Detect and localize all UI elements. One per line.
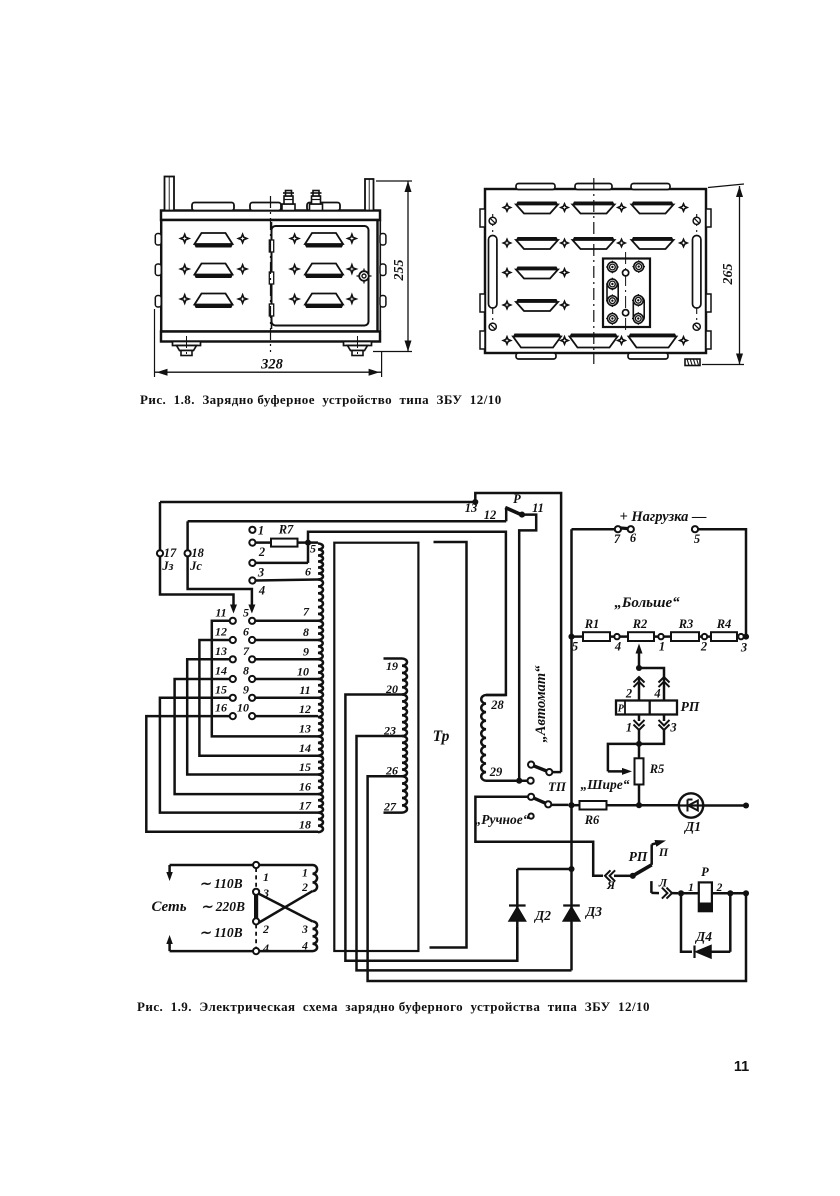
svg-text:1: 1 (258, 524, 264, 538)
svg-text:28: 28 (490, 698, 504, 712)
svg-text:255: 255 (392, 260, 407, 282)
svg-text:„Автомат“: „Автомат“ (533, 665, 549, 743)
svg-text:8: 8 (243, 664, 249, 678)
figure 1.8: terminal bolts on top (282, 191, 323, 211)
svg-text:R3: R3 (678, 617, 694, 631)
diode Д4 (681, 893, 730, 958)
svg-text:10: 10 (237, 701, 249, 715)
wire winding 29 to switch (486, 778, 534, 784)
switch ТП automatic contact (528, 762, 561, 776)
transformer Тр secondary winding taps 19-27 (384, 659, 408, 813)
svg-text:2: 2 (301, 882, 308, 894)
svg-text:5: 5 (243, 605, 249, 619)
svg-text:14: 14 (215, 664, 227, 678)
svg-text:2: 2 (625, 687, 632, 701)
svg-text:5: 5 (694, 532, 700, 546)
svg-text:Д3: Д3 (584, 904, 602, 919)
svg-text:12: 12 (484, 508, 497, 522)
mains input Сеть arrows (151, 865, 253, 951)
svg-text:13: 13 (215, 644, 227, 658)
resistor R4 (711, 617, 738, 641)
svg-text:Р: Р (513, 492, 521, 506)
R2 wiper arrow to relay РП (636, 644, 665, 678)
left load rail (570, 529, 573, 970)
svg-text:11: 11 (532, 501, 544, 515)
terminal 4 between R1 R2 (614, 634, 628, 654)
wire tap 23 to diode Д3 (bottom link) (357, 736, 572, 970)
terminal 18 Jс (185, 546, 205, 573)
svg-text:ТП: ТП (548, 779, 567, 794)
svg-text:R6: R6 (584, 813, 600, 827)
transformer core (tall rectangle) (334, 543, 418, 951)
svg-text:11: 11 (299, 683, 310, 697)
svg-text:12: 12 (299, 702, 311, 716)
switch ТП manual contact (528, 794, 568, 808)
svg-text:4: 4 (301, 941, 308, 953)
figure 1.8: centerline (270, 196, 272, 352)
svg-text:R7: R7 (278, 523, 294, 537)
diode Д1 (stabilitron in circle) (639, 793, 749, 834)
svg-text:1: 1 (263, 870, 269, 884)
resistor R3 (671, 617, 702, 641)
svg-text:17: 17 (164, 546, 177, 560)
svg-text:∼ 220В: ∼ 220В (201, 899, 245, 914)
figure 1.8: feet (173, 336, 372, 358)
terminal 2 (249, 540, 265, 560)
resistor R1 (568, 617, 614, 654)
svg-text:1: 1 (626, 721, 632, 735)
load terminals +Нагрузка− (572, 509, 747, 637)
svg-text:4: 4 (653, 687, 660, 701)
svg-text:Јс: Јс (189, 559, 202, 573)
contact РП with positions П and Л (605, 840, 678, 899)
svg-text:3: 3 (669, 721, 676, 735)
wire from terminal 17 to tap selector arrow 11 (160, 556, 237, 613)
svg-text:7: 7 (243, 644, 250, 658)
svg-text:18: 18 (191, 546, 204, 560)
svg-text:РП: РП (629, 849, 648, 864)
svg-text:3: 3 (301, 924, 308, 936)
switch Р (contacts 13-12-11) (465, 492, 561, 781)
svg-text:Д4: Д4 (694, 929, 712, 944)
svg-text:11: 11 (734, 1059, 749, 1075)
svg-text:2: 2 (262, 922, 269, 936)
svg-text:1: 1 (302, 868, 308, 880)
svg-text:„Шире“: „Шире“ (581, 777, 630, 792)
svg-text:R4: R4 (716, 617, 732, 631)
wire net 13 (top long wire to switch P) (160, 502, 475, 550)
svg-text:23: 23 (383, 724, 396, 738)
svg-text:6: 6 (630, 531, 637, 545)
wire from terminal 18 to tap selector arrow 5 (188, 556, 256, 613)
terminal 3 (249, 560, 308, 580)
winding tap number labels 5-18 (297, 542, 316, 832)
terminal 1 (249, 524, 264, 538)
svg-text:16: 16 (299, 780, 311, 794)
svg-text:18: 18 (299, 818, 311, 832)
winding tap labels 19-27 (383, 659, 398, 814)
svg-text:27: 27 (383, 800, 397, 814)
svg-text:9: 9 (303, 645, 309, 659)
wire net 12 (second long wire to switch P blade) (188, 521, 507, 550)
svg-text:Д2: Д2 (533, 908, 551, 923)
svg-text:16: 16 (215, 701, 227, 715)
svg-text:6: 6 (243, 625, 249, 639)
figure 1.8 front view: enclosure body (155, 177, 386, 342)
terminal 17 Jз (157, 546, 177, 573)
svg-text:13: 13 (465, 501, 478, 515)
svg-text:4: 4 (614, 640, 621, 654)
figure 1.8 top view: louver vents and screws (503, 202, 687, 348)
svg-text:„Ручное“: „Ручное“ (474, 812, 529, 827)
svg-text:5: 5 (572, 640, 578, 654)
svg-text:11: 11 (215, 605, 226, 619)
figure 1.8 rear/top view: enclosure outline (480, 184, 711, 360)
label Ручное with open contact (474, 812, 533, 827)
terminal 2 between R3 R4 (700, 634, 711, 654)
dimension 265 (fig 1.8 top view) (702, 184, 744, 365)
svg-text:РП: РП (681, 699, 700, 714)
diode Д2 (509, 903, 551, 961)
junction to rectifier diodes (517, 866, 574, 903)
resistor R7 (256, 523, 309, 547)
svg-text:7: 7 (614, 532, 621, 546)
transformer Тр main winding with taps 5-18 (318, 544, 323, 833)
resistor R6 (568, 801, 642, 827)
primary winding 3-4 (259, 921, 317, 952)
svg-text:Л: Л (658, 876, 668, 890)
svg-text:Р: Р (618, 704, 625, 715)
svg-text:∼ 110В: ∼ 110В (199, 925, 242, 940)
svg-text:29: 29 (489, 765, 503, 779)
svg-text:1: 1 (659, 640, 665, 654)
svg-text:26: 26 (385, 764, 398, 778)
plug contacts 2 and 4 (chevrons up) (625, 677, 670, 701)
cross link wires (258, 891, 312, 923)
svg-text:10: 10 (297, 665, 309, 679)
figure 1.8 top view: terminal panel (603, 252, 650, 333)
svg-text:17: 17 (299, 799, 312, 813)
figure 1.8: louver vents and screws (181, 233, 357, 308)
primary link terminals 1 3 2 4 (253, 862, 269, 955)
diode Д3 (563, 904, 602, 921)
svg-text:15: 15 (215, 682, 227, 696)
svg-text:Тр: Тр (433, 728, 450, 745)
svg-text:14: 14 (299, 741, 311, 755)
transformer winding 28-29 (481, 695, 506, 781)
svg-text:7: 7 (303, 605, 310, 619)
svg-text:328: 328 (260, 357, 284, 373)
svg-text:R5: R5 (649, 762, 665, 776)
svg-text:+ Нагрузка —: + Нагрузка — (619, 509, 707, 525)
plug contacts 1 and 3 (chevrons down) (626, 715, 677, 747)
terminal 3 after R4 (738, 634, 749, 655)
svg-text:20: 20 (385, 682, 398, 696)
svg-text:2: 2 (700, 640, 707, 654)
svg-text:Јз: Јз (161, 559, 173, 573)
wire tap 20 to diode Д2 (bottom link) (345, 695, 517, 961)
svg-text:Сеть: Сеть (151, 899, 186, 915)
wire tap 26 to right rail (bottom link) (368, 776, 746, 981)
terminal 4 (249, 577, 318, 597)
dimension 255 (fig 1.8) (373, 181, 412, 352)
figure 1.8 top view: centerline (593, 178, 595, 364)
svg-text:Я: Я (606, 878, 616, 892)
terminal 1 between R2 R3 (658, 634, 671, 654)
svg-text:12: 12 (215, 625, 227, 639)
svg-text:Р: Р (701, 865, 709, 879)
relay Р (678, 865, 749, 911)
dimension 328 (fig 1.8) (155, 309, 382, 377)
svg-text:5: 5 (310, 542, 316, 556)
relay РП coil (616, 699, 700, 715)
selector terminals 5-10 (right column) (237, 605, 318, 719)
svg-text:13: 13 (299, 722, 311, 736)
node at R7 output / winding top (305, 532, 506, 695)
primary winding 1-2 (259, 865, 317, 894)
svg-text:19: 19 (386, 659, 398, 673)
svg-text:8: 8 (303, 625, 309, 639)
svg-text:„Больше“: „Больше“ (614, 595, 680, 611)
svg-text:Рис. 1.8. Зарядно буферное: Рис. 1.8. Зарядно буферное устройство ти… (140, 392, 502, 407)
svg-text:Д1: Д1 (683, 819, 701, 834)
svg-text:4: 4 (262, 941, 269, 955)
resistor R2 (628, 617, 658, 641)
svg-text:R2: R2 (632, 617, 648, 631)
potentiometer R5 (635, 744, 665, 805)
svg-text:15: 15 (299, 760, 311, 774)
svg-text:2: 2 (258, 545, 265, 559)
figure 1.8 top view: side handles and corner screws (489, 214, 701, 330)
svg-text:4: 4 (258, 584, 265, 598)
svg-text:6: 6 (305, 565, 311, 579)
mains voltage labels (199, 876, 245, 940)
screen wire (second core band) (430, 542, 467, 948)
R5 wiper arrow Шире (581, 744, 639, 792)
svg-text:3: 3 (740, 641, 747, 655)
svg-text:1: 1 (688, 882, 694, 894)
svg-text:∼ 110В: ∼ 110В (199, 876, 242, 891)
svg-text:3: 3 (257, 566, 264, 580)
svg-text:R1: R1 (584, 617, 600, 631)
svg-text:П: П (658, 845, 669, 859)
svg-text:265: 265 (721, 264, 736, 286)
figure 1.8 top view: bottom-right foot (685, 359, 700, 366)
figure 1.8: hinged door with lock (269, 222, 371, 329)
svg-text:9: 9 (243, 682, 249, 696)
selector terminals 11-16 (left column) with nested link wires to taps 13-18 (146, 605, 318, 832)
svg-text:Рис. 1.9. Электрическая схе: Рис. 1.9. Электрическая схема зарядно бу… (137, 999, 650, 1014)
wire Ручное loop to РП contact (475, 797, 603, 876)
